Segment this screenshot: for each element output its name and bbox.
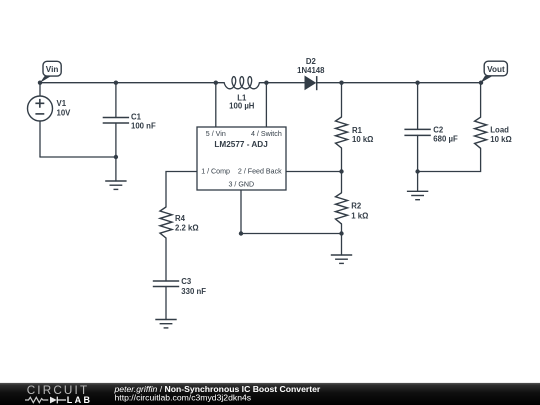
svg-text:1 kΩ: 1 kΩ xyxy=(351,212,368,221)
node C2 bottom xyxy=(415,169,419,173)
svg-text:LM2577 - ADJ: LM2577 - ADJ xyxy=(214,140,267,149)
wire IC pin3 to ground rail xyxy=(241,190,342,234)
svg-text:LAB: LAB xyxy=(67,395,91,405)
wire inductor to diode xyxy=(259,82,305,84)
svg-text:100 nF: 100 nF xyxy=(131,122,156,131)
wire IC pin4 xyxy=(265,83,267,127)
wire R2 top lead xyxy=(341,172,343,193)
flag Vout xyxy=(481,61,508,82)
wire top rail left (Vin to inductor) xyxy=(40,82,224,84)
node C1 bottom xyxy=(114,155,118,159)
node C1 top xyxy=(114,81,118,85)
svg-text:http://circuitlab.com/c3myd3j2: http://circuitlab.com/c3myd3j2dkn4s xyxy=(115,393,252,403)
inductor L1 xyxy=(224,77,259,89)
svg-text:C1: C1 xyxy=(131,112,142,121)
wire V1 top lead xyxy=(39,83,41,96)
logo resistor squiggle xyxy=(25,397,48,402)
svg-text:10 kΩ: 10 kΩ xyxy=(352,135,373,144)
svg-text:R1: R1 xyxy=(352,126,363,135)
node diode R1 xyxy=(339,81,343,85)
logo diode xyxy=(50,397,57,404)
wire IC pin5 xyxy=(215,83,217,127)
resistor R1 xyxy=(336,117,348,148)
wire C3 ground stub xyxy=(165,287,167,320)
svg-text:4 / Switch: 4 / Switch xyxy=(251,130,282,138)
svg-text:2 / Feed Back: 2 / Feed Back xyxy=(238,167,282,175)
svg-text:10 kΩ: 10 kΩ xyxy=(490,135,511,144)
wire R2 bottom lead xyxy=(341,224,343,234)
svg-text:D2: D2 xyxy=(306,57,317,66)
wire C1 bottom lead xyxy=(115,123,117,157)
wire diode to Vout corner xyxy=(317,82,481,84)
svg-text:R2: R2 xyxy=(351,201,362,210)
resistor R4 xyxy=(160,207,172,238)
node R2 bottom xyxy=(339,231,343,235)
svg-text:330 nF: 330 nF xyxy=(181,287,206,296)
svg-text:10V: 10V xyxy=(57,109,72,118)
node Vout corner xyxy=(479,81,483,85)
ground under C1 xyxy=(105,181,126,189)
svg-text:C3: C3 xyxy=(181,277,192,286)
wire Load top lead xyxy=(480,83,482,118)
IC U1 LM2577 box xyxy=(197,127,286,190)
capacitor C1 xyxy=(103,118,129,124)
wire R1 bottom lead xyxy=(341,148,343,172)
wire IC pin1 to R4 xyxy=(166,172,197,208)
ground under R2 xyxy=(331,255,352,263)
node pin4 tap xyxy=(264,81,268,85)
svg-text:1 / Comp: 1 / Comp xyxy=(201,167,230,175)
wire C2 bottom lead xyxy=(417,135,419,171)
node Vin corner xyxy=(38,81,42,85)
node C2 top xyxy=(415,81,419,85)
svg-text:V1: V1 xyxy=(57,99,67,108)
wire R1 top lead xyxy=(341,83,343,117)
svg-text:C2: C2 xyxy=(433,125,444,134)
svg-text:3 / GND: 3 / GND xyxy=(228,180,254,188)
node gnd corner pin3 xyxy=(239,231,243,235)
svg-text:680 µF: 680 µF xyxy=(433,135,458,144)
wire R4 to C3 xyxy=(165,238,167,281)
wire V1 bottom lead xyxy=(39,121,41,157)
wire bottom right rail xyxy=(418,148,481,171)
svg-text:Load: Load xyxy=(490,126,509,135)
ground under C3 xyxy=(155,320,176,328)
node feedback xyxy=(339,169,343,173)
ground under C2 rail xyxy=(407,191,428,199)
wire C1 top lead xyxy=(115,83,117,118)
wire C2 ground stub xyxy=(417,172,419,192)
resistor Load xyxy=(475,117,487,148)
capacitor C3 xyxy=(153,281,179,287)
svg-text:2.2 kΩ: 2.2 kΩ xyxy=(175,224,199,233)
svg-text:R4: R4 xyxy=(175,214,186,223)
wire bottom left rail xyxy=(40,156,116,158)
svg-text:Vin: Vin xyxy=(46,65,59,74)
wire IC pin2 to feedback node xyxy=(286,171,342,173)
flag Vin xyxy=(40,61,61,82)
wire R2 ground stub xyxy=(341,234,343,256)
svg-text:100 µH: 100 µH xyxy=(229,101,255,110)
voltage source V1 xyxy=(28,96,53,121)
capacitor C2 xyxy=(404,129,430,135)
svg-text:5 / Vin: 5 / Vin xyxy=(206,130,226,138)
wire C2 top lead xyxy=(417,83,419,130)
svg-text:1N4148: 1N4148 xyxy=(297,66,325,75)
resistor R2 xyxy=(336,193,348,224)
diode D2 xyxy=(305,76,317,90)
svg-text:Vout: Vout xyxy=(487,65,505,74)
wire C1 ground stub xyxy=(115,157,117,181)
node pin5 tap xyxy=(214,81,218,85)
